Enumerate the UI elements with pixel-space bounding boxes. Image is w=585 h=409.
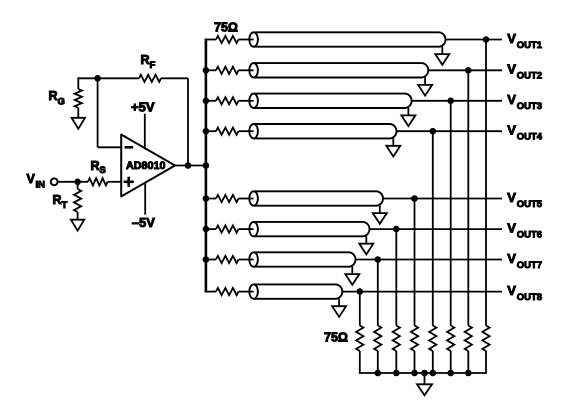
- wire cable shield stub row 8: [338, 299, 340, 306]
- resistor 75ohm termination 3: [447, 326, 454, 352]
- wire op-amp output: [175, 165, 206, 167]
- node bottom bus junction 4: [411, 370, 418, 377]
- node bus row 5 junction: [203, 195, 210, 202]
- wire resistor to cable row 5: [239, 198, 255, 200]
- wire cable to VOUT8: [342, 291, 502, 293]
- node bus-output junction: [203, 162, 210, 169]
- svg-text:G: G: [58, 96, 65, 107]
- ground cable shield row 8: [332, 306, 346, 317]
- coax cable row 7: [254, 252, 356, 266]
- coax cable row 1: [254, 32, 446, 46]
- node bus row 6 junction: [203, 226, 210, 233]
- wire termination 2 to bus: [467, 351, 469, 373]
- wire bottom ground stub: [424, 373, 426, 384]
- ground cable shield row 4: [386, 146, 400, 157]
- wire bus to R1 resistor: [205, 39, 216, 41]
- resistor 75ohm termination 6: [393, 326, 400, 352]
- node VOUT7 junction: [375, 256, 382, 263]
- svg-text:75Ω: 75Ω: [214, 21, 238, 35]
- node feedback-output junction: [185, 162, 192, 169]
- wire bus to R3 resistor: [205, 100, 216, 102]
- wire termination 7 to bus: [377, 351, 379, 373]
- ground cable shield row 5: [373, 213, 387, 224]
- svg-text:–5V: –5V: [132, 215, 155, 230]
- svg-text:V: V: [507, 62, 516, 77]
- wire VIN to RS: [58, 181, 88, 183]
- node VOUT2 junction: [465, 67, 472, 74]
- svg-text:S: S: [100, 165, 106, 176]
- svg-text:75Ω: 75Ω: [324, 331, 348, 345]
- wire termination 8 to bus: [359, 351, 361, 373]
- svg-text:+5V: +5V: [131, 100, 155, 115]
- wire resistor to cable row 6: [239, 228, 255, 230]
- svg-text:R: R: [49, 89, 58, 103]
- coax cable row 3: [254, 94, 412, 108]
- wire cable shield stub row 5: [379, 206, 381, 213]
- wire bus to R2 resistor: [205, 69, 216, 71]
- node VOUT5 junction: [411, 195, 418, 202]
- wire column VOUT5 vertical: [414, 199, 416, 326]
- wire bus to R6 resistor: [205, 228, 216, 230]
- wire main bus vertical: [205, 39, 208, 293]
- resistor 75ohm termination 7: [374, 326, 381, 352]
- svg-text:OUT4: OUT4: [517, 132, 543, 143]
- ground cable shield row 1: [435, 54, 449, 65]
- resistor 75ohm series row 3: [216, 97, 239, 104]
- node bottom bus junction 2: [447, 370, 454, 377]
- node bottom bus ground junction: [421, 370, 428, 377]
- wire bus to R7 resistor: [205, 259, 216, 261]
- wire RG top corner: [77, 77, 79, 89]
- resistor 75ohm series row 1: [216, 36, 239, 43]
- svg-text:V: V: [507, 283, 516, 298]
- wire column VOUT7 vertical: [377, 260, 379, 326]
- resistor 75ohm series row 8: [216, 288, 239, 295]
- wire +5V supply: [144, 114, 146, 149]
- wire cable to VOUT3: [412, 100, 502, 102]
- wire feedback vertical: [187, 78, 189, 165]
- svg-text:F: F: [150, 60, 156, 71]
- op-amp plus sign: [124, 181, 134, 184]
- wire RT to ground: [77, 212, 79, 220]
- wire cable shield stub row 7: [351, 267, 353, 274]
- svg-text:R: R: [91, 159, 100, 173]
- wire termination 4 to bus: [432, 351, 434, 373]
- wire bus to R8 resistor: [205, 291, 216, 293]
- wire cable shield stub row 1: [441, 47, 443, 54]
- wire cable to VOUT2: [428, 69, 502, 71]
- node bottom bus junction 5: [393, 370, 400, 377]
- wire inverting input horizontal: [98, 146, 122, 148]
- node bottom bus junction 6: [375, 370, 382, 377]
- svg-text:V: V: [507, 251, 516, 266]
- node bus row 3 junction: [203, 98, 210, 105]
- node VOUT6 junction: [393, 226, 400, 233]
- wire termination 5 to bus: [414, 351, 416, 373]
- svg-text:OUT3: OUT3: [517, 101, 542, 112]
- resistor 75ohm series row 6: [216, 226, 239, 233]
- wire resistor to cable row 7: [239, 259, 255, 261]
- wire termination 6 to bus: [395, 351, 397, 373]
- wire cable shield stub row 4: [392, 138, 394, 145]
- wire cable to VOUT5: [383, 198, 502, 200]
- svg-text:IN: IN: [36, 179, 46, 190]
- node bus row 4 junction: [203, 128, 210, 135]
- svg-text:OUT1: OUT1: [517, 40, 543, 51]
- op-amp minus sign: [125, 146, 134, 149]
- svg-text:V: V: [507, 221, 516, 236]
- resistor 75ohm termination 5: [411, 326, 418, 352]
- wire resistor to cable row 1: [239, 39, 255, 41]
- svg-text:V: V: [27, 172, 36, 186]
- wire bottom bus: [359, 372, 487, 374]
- resistor 75ohm termination 2: [465, 326, 472, 352]
- wire column VOUT8 vertical: [359, 292, 361, 326]
- wire feedback horizontal: [77, 77, 139, 79]
- wire termination 1 to bus: [485, 351, 487, 373]
- node bottom bus junction 3: [430, 370, 437, 377]
- node bottom bus junction 1: [465, 370, 472, 377]
- resistor 75ohm termination 1: [482, 326, 489, 352]
- coax cable row 2: [254, 63, 429, 77]
- wire termination 3 to bus: [450, 351, 452, 373]
- wire cable to VOUT4: [397, 130, 503, 132]
- coax cable row 5: [254, 191, 383, 205]
- svg-text:R: R: [53, 193, 62, 207]
- wire bus to R4 resistor: [205, 130, 216, 132]
- ground cable shield row 2: [418, 85, 432, 96]
- svg-text:V: V: [507, 190, 516, 205]
- svg-text:OUT6: OUT6: [517, 230, 542, 241]
- wire resistor to cable row 3: [239, 100, 255, 102]
- input terminal (open circle): [51, 178, 58, 185]
- wire resistor to cable row 8: [239, 291, 255, 293]
- resistor RS: [88, 178, 108, 185]
- svg-text:V: V: [507, 92, 516, 107]
- svg-text:V: V: [507, 31, 516, 46]
- node VOUT4 junction: [430, 128, 437, 135]
- ground cable shield row 3: [401, 115, 415, 126]
- node bus row 2 junction: [203, 67, 210, 74]
- wire resistor to cable row 4: [239, 130, 255, 132]
- resistor 75ohm termination 8: [356, 326, 363, 352]
- wire cable shield stub row 6: [365, 236, 367, 243]
- wire -5V supply: [144, 183, 146, 215]
- wire column VOUT6 vertical: [395, 229, 397, 325]
- node VIN junction: [74, 179, 81, 186]
- resistor RG: [75, 89, 82, 108]
- wire resistor to cable row 2: [239, 69, 255, 71]
- coax cable row 8: [254, 284, 343, 298]
- resistor 75ohm series row 4: [216, 128, 239, 135]
- ground cable shield row 7: [345, 274, 359, 285]
- svg-text:OUT5: OUT5: [517, 199, 543, 210]
- wire cable shield stub row 2: [424, 78, 426, 85]
- wire cable to VOUT7: [356, 259, 503, 261]
- wire column VOUT3 vertical: [450, 101, 452, 326]
- wire column VOUT2 vertical: [467, 70, 469, 325]
- svg-text:R: R: [141, 53, 150, 67]
- svg-text:OUT2: OUT2: [517, 71, 542, 82]
- node RG junction: [94, 75, 101, 82]
- wire cable to VOUT1: [446, 39, 503, 41]
- node bus row 7 junction: [203, 256, 210, 263]
- wire cable to VOUT6: [370, 228, 503, 230]
- coax cable row 6: [254, 222, 370, 236]
- ground main: [417, 384, 432, 395]
- resistor 75ohm series row 7: [216, 256, 239, 263]
- resistor RF: [139, 75, 161, 82]
- wire RG to ground: [77, 108, 79, 118]
- node VOUT8 junction: [357, 288, 364, 295]
- wire column VOUT4 vertical: [432, 131, 434, 325]
- op-amp U1 triangle: [121, 135, 175, 197]
- wire column VOUT1 vertical: [485, 40, 487, 326]
- resistor RT: [74, 189, 81, 212]
- wire cable shield stub row 3: [407, 108, 409, 115]
- wire RF to right corner: [161, 77, 188, 79]
- ground RT: [71, 220, 84, 231]
- wire inverting input vertical: [97, 78, 99, 147]
- coax cable row 4: [254, 124, 397, 138]
- svg-text:OUT7: OUT7: [517, 260, 542, 271]
- ground RG: [72, 118, 85, 129]
- wire RS to op-amp +: [108, 181, 122, 183]
- svg-text:V: V: [507, 123, 516, 138]
- svg-text:OUT8: OUT8: [517, 292, 542, 303]
- resistor 75ohm termination 4: [429, 326, 436, 352]
- wire bus to R5 resistor: [205, 198, 216, 200]
- ground cable shield row 6: [359, 244, 373, 255]
- resistor 75ohm series row 5: [216, 195, 239, 202]
- node VOUT3 junction: [447, 98, 454, 105]
- svg-text:T: T: [62, 200, 68, 211]
- svg-text:AD8010: AD8010: [126, 160, 166, 172]
- node VOUT1 junction: [483, 36, 490, 43]
- resistor 75ohm series row 2: [216, 67, 239, 74]
- wire RT drop: [77, 182, 79, 189]
